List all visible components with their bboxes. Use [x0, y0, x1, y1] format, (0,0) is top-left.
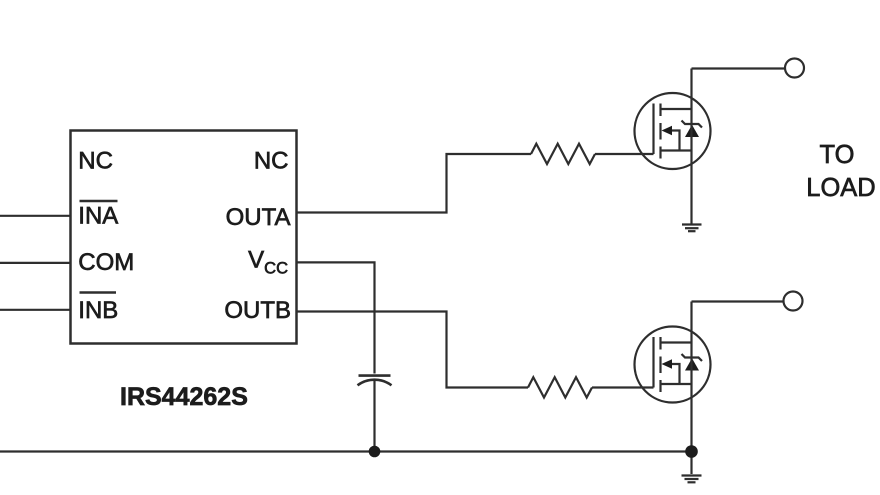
- svg-text:OUTB: OUTB: [224, 297, 291, 324]
- svg-text:IRS44262S: IRS44262S: [120, 383, 248, 411]
- wire INA input: [0, 215, 71, 217]
- wire VCC: [297, 262, 375, 373]
- transistor Q2 internals: [654, 337, 703, 392]
- ground Q2: [682, 476, 702, 483]
- svg-text:LOAD: LOAD: [806, 174, 875, 202]
- terminal T1: [785, 59, 804, 78]
- resistor R1: [531, 144, 595, 164]
- wire OUTB to gate corner: [297, 312, 529, 388]
- transistor Q1 internals: [654, 104, 703, 159]
- wire OUTA to gate corner: [297, 154, 532, 213]
- svg-text:NC: NC: [78, 148, 113, 175]
- svg-text:INA: INA: [78, 203, 118, 230]
- overline INB: [80, 291, 117, 294]
- svg-text:COM: COM: [78, 249, 134, 276]
- transistor Q1 circle: [635, 93, 711, 169]
- wire R1 to gate Q1: [595, 153, 654, 155]
- wire Q2 drain to terminal: [690, 302, 692, 452]
- svg-text:TO: TO: [820, 141, 855, 169]
- node N1 cap-rail junction: [369, 446, 381, 458]
- svg-text:NC: NC: [254, 148, 289, 175]
- node N2 source-rail junction: [685, 445, 698, 458]
- IC U1 body: [71, 131, 297, 344]
- ground Q1: [682, 225, 702, 232]
- terminal T2: [784, 292, 803, 311]
- wire COM input: [0, 262, 71, 264]
- resistor R2: [528, 377, 592, 397]
- svg-text:OUTA: OUTA: [226, 204, 291, 231]
- transistor Q2 circle: [635, 327, 711, 403]
- capacitor C1: [358, 376, 392, 452]
- wire Q1 drain to terminal: [690, 69, 692, 225]
- ground rail: [0, 450, 692, 452]
- overline INA: [80, 200, 118, 203]
- wire INB input: [0, 309, 71, 311]
- svg-text:INB: INB: [78, 297, 118, 324]
- svg-text:VCC: VCC: [248, 247, 288, 278]
- wire Q2 source to ground: [690, 452, 692, 475]
- wire R2 to gate Q2: [592, 386, 654, 388]
